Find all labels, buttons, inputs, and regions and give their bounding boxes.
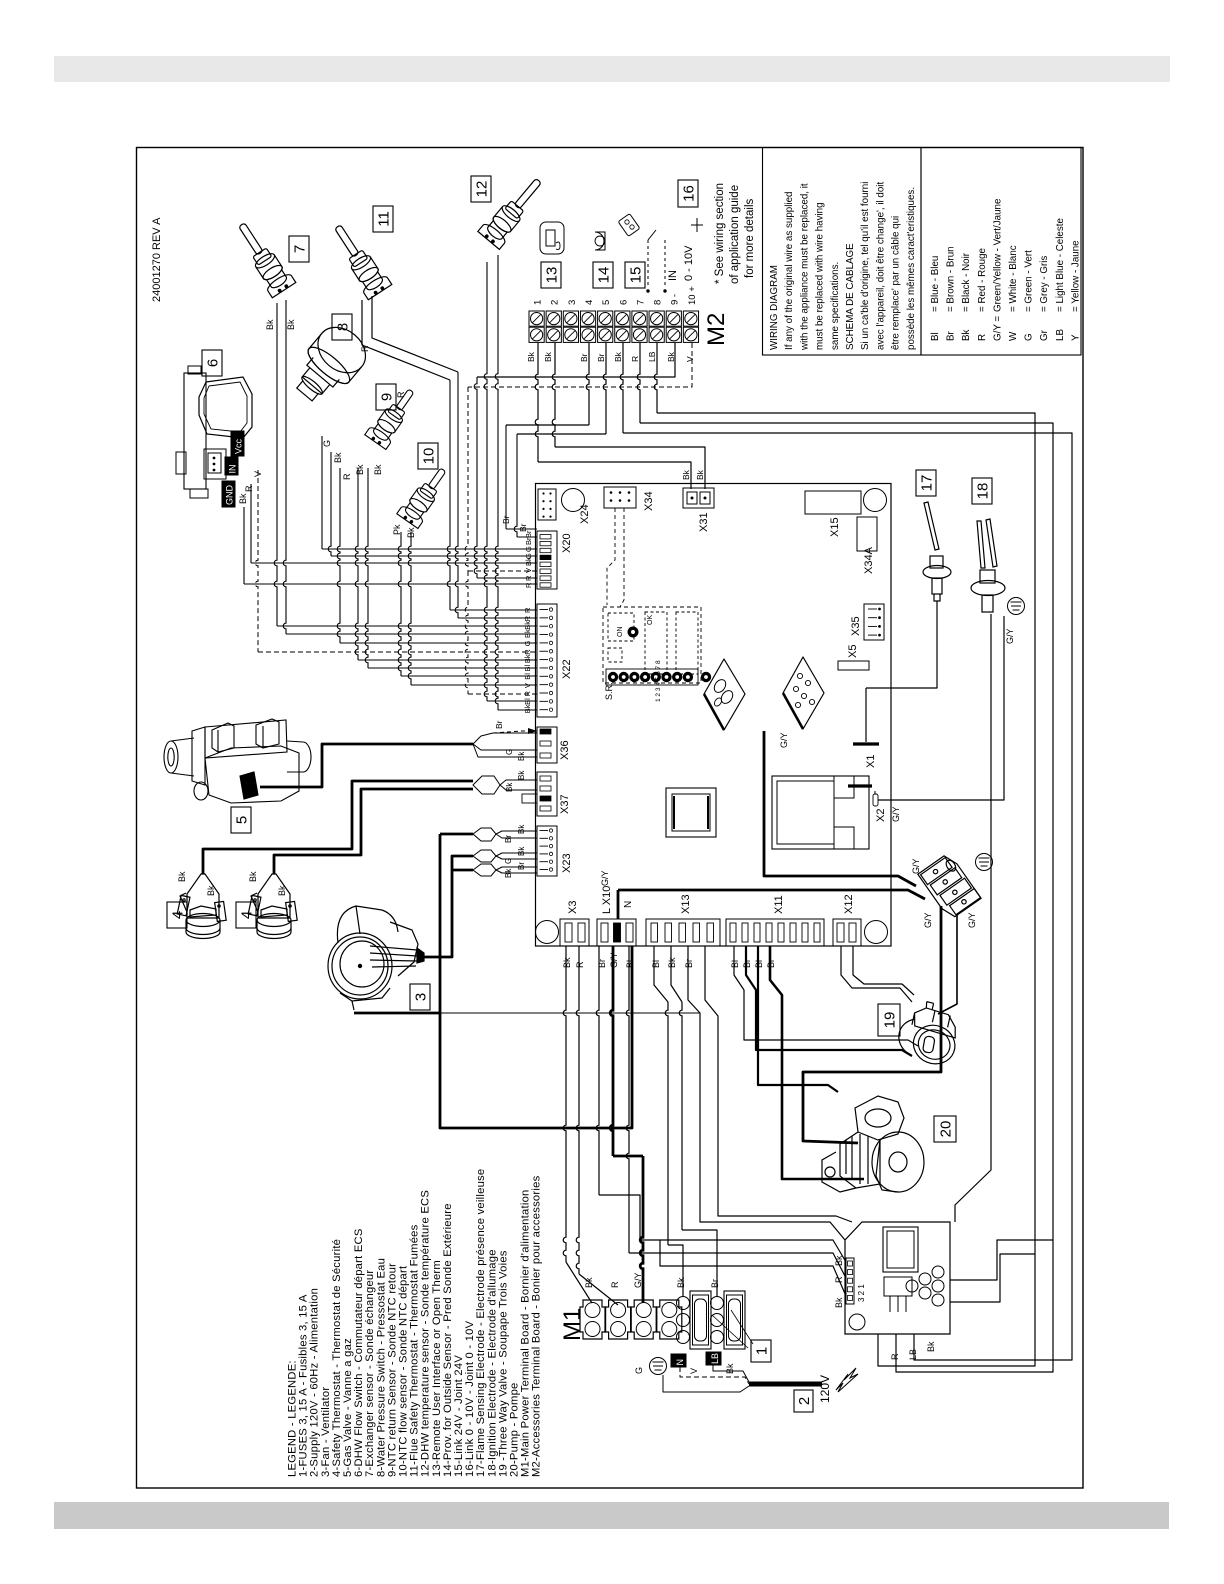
connector X22 [537,604,557,717]
wire gas valve 6 GND Bk [243,507,245,584]
sensor 10 NTC flow sensor [397,462,454,528]
svg-text:7: 7 [291,245,308,253]
wire pressure switch 8 R [337,468,340,643]
svg-text:Bk: Bk [355,464,365,475]
svg-text:Bk: Bk [695,469,705,480]
svg-text:Y: Y [1070,334,1081,341]
svg-text:Bk: Bk [523,704,532,713]
buzzer piezo element [704,659,745,730]
svg-text:G: G [524,546,533,552]
svg-text:LB: LB [710,1353,720,1364]
svg-text:G: G [634,1367,644,1374]
svg-text:X5: X5 [847,645,859,658]
svg-text:R: R [523,649,532,655]
svg-text:G/Y: G/Y [923,912,933,928]
svg-text:Bl: Bl [523,673,532,680]
svg-text:18: 18 [974,483,991,500]
transformer X2 [772,776,869,849]
svg-text:R: R [523,691,532,697]
svg-text:Bk: Bk [517,824,526,834]
connector X34 [604,487,636,508]
PCB mounting hole top-right [864,489,887,512]
fan 3 [328,906,424,1010]
svg-text:X31: X31 [698,512,710,532]
svg-text:= Brown - Brun: = Brown - Brun [946,246,957,312]
svg-text:with the appliance must be rep: with the appliance must be replaced, it [799,183,810,351]
wire M2-7 to right side [637,343,640,423]
svg-text:must be replaced with wire hav: must be replaced with wire having [815,202,826,350]
wire gas valve 6 IN R [250,484,252,563]
svg-text:4: 4 [169,911,186,919]
wire M2-8 to right side [654,343,657,413]
svg-text:Br: Br [946,330,957,341]
bottom connector X3 [560,919,589,946]
svg-text:Br: Br [524,530,533,538]
connector X20 [537,531,557,589]
fan 3 branch to X23 lower fork [452,869,473,872]
G/Y thick wire X10 to M1 [610,946,613,1156]
svg-text:M1: M1 [559,1308,586,1341]
wire M2-5 vertical [514,434,517,537]
svg-text:V: V [524,568,533,573]
svg-text:X23: X23 [561,853,573,873]
svg-text:9: 9 [378,393,395,401]
svg-text:2: 2 [796,1397,813,1405]
svg-text:GND: GND [225,485,235,506]
svg-text:IN: IN [667,270,679,281]
svg-text:5: 5 [233,816,250,824]
PCB mounting hole bottom-right [865,921,888,944]
svg-text:5: 5 [601,300,612,305]
svg-text:Bk: Bk [523,629,532,638]
svg-text:G/Y: G/Y [633,1272,643,1288]
svg-text:14: 14 [595,267,612,284]
svg-text:1 2 3 4 5 6 7 8: 1 2 3 4 5 6 7 8 [655,660,662,702]
connector X35 [864,604,884,640]
sensor 7 exchanger sensor [230,217,296,298]
svg-text:R: R [575,961,585,968]
igniter connector pins [846,1258,854,1304]
dashed wire 0-10V + [465,387,468,571]
svg-text:20: 20 [937,1121,954,1138]
svg-text:R: R [342,473,352,480]
svg-text:= Grey - Gris: = Grey - Gris [1039,256,1050,312]
svg-text:M2: M2 [703,313,730,346]
svg-text:G: G [322,440,332,447]
wire pressure switch 8 G [321,436,323,549]
fan 3 wire to X23 upper fork [354,1012,440,1015]
svg-text:LB: LB [647,351,657,362]
svg-text:19: 19 [881,1012,898,1029]
gas valve 6 [202,350,222,376]
gas valve pin labels Vcc IN GND [231,431,244,456]
sensor 12 DHW temperature sensor [478,172,550,250]
svg-text:7: 7 [635,300,646,305]
svg-text:G/Y: G/Y [600,870,610,886]
wire sensor 10 b [408,532,411,685]
svg-text:G: G [523,640,532,646]
svg-text:3: 3 [412,993,429,1001]
X11 wires to transducer 19 [734,946,918,1046]
svg-text:X11: X11 [773,895,785,914]
wire sensor 7 Bk a [274,303,277,626]
svg-text:Gr: Gr [1039,329,1050,341]
svg-text:Bk: Bk [277,885,287,896]
wire M2-1 to X31 pin1 [535,343,538,462]
svg-text:6: 6 [618,300,629,305]
fan 3 thick wire to X10 N [440,946,632,1128]
igniter to right verticals [878,1254,1035,1366]
svg-text:15: 15 [627,267,644,284]
svg-text:R: R [890,1353,900,1360]
svg-text:R: R [610,1281,620,1288]
svg-text:= Green - Vert: = Green - Vert [1024,250,1035,312]
item box 16 [678,180,698,207]
bottom connector X12 [833,919,861,946]
connector X15 [805,491,861,514]
main control PCB outline [536,484,892,947]
link 24V dashed wires [647,240,649,288]
wire sensor 9 b [365,468,368,668]
wiring diagram notes box [763,148,922,356]
svg-text:= Blue - Bleu: = Blue - Bleu [930,256,941,312]
svg-text:Bk: Bk [961,329,972,341]
flame electrode 17 [916,470,936,496]
svg-text:X24: X24 [579,504,591,524]
svg-text:Green/Yellow - Vert/Jaune: Green/Yellow - Vert/Jaune [992,198,1003,312]
connector X36 [537,727,557,763]
connector X37 [537,772,557,816]
svg-text:1: 1 [753,1347,770,1355]
svg-text:Bk: Bk [524,557,533,566]
page header bar [54,56,1170,82]
svg-text:X15: X15 [829,517,841,537]
sensor 9 NTC return sensor [365,383,422,449]
svg-text:17: 17 [918,475,935,492]
svg-text:Bk: Bk [926,1341,936,1352]
svg-text:10: 10 [420,448,437,465]
svg-text:LB: LB [1055,329,1066,341]
svg-text:Bl: Bl [730,960,740,968]
svg-text:= Light Blue - Celeste: = Light Blue - Celeste [1055,218,1066,312]
svg-text:= Yellow - Jaune: = Yellow - Jaune [1070,240,1081,312]
supply 120V cable [749,1382,822,1387]
svg-text:13: 13 [543,267,560,284]
svg-text:4: 4 [584,300,595,305]
svg-text:11: 11 [375,211,392,227]
svg-text:Bl: Bl [625,960,635,968]
svg-text:Bk: Bk [676,1277,686,1288]
safety thermostat 4 left [177,874,226,939]
svg-text:Bk: Bk [265,319,275,330]
ground symbol near electrode 18 [1008,598,1025,615]
capacitor X1 [853,742,879,745]
svg-text:possède les mêmes caract'erist: possède les mêmes caract'eristiques. [906,187,917,350]
svg-text:WIRING DIAGRAM: WIRING DIAGRAM [769,265,780,350]
svg-text:R: R [524,582,533,588]
svg-text:X35: X35 [850,616,862,636]
PCB mounting hole bottom-left [536,921,559,944]
svg-text:R: R [524,575,533,581]
wire M2-5 to X20 pin2 [603,343,606,434]
safety thermostat 4 right [248,874,297,939]
svg-text:SCHEMA DE CABLAGE: SCHEMA DE CABLAGE [845,243,856,350]
svg-text:Bk: Bk [526,351,536,362]
svg-text:4: 4 [238,911,255,919]
item box 13 with room thermostat icon [541,262,561,288]
connector X31 [683,488,714,508]
svg-text:Br: Br [579,353,589,362]
svg-text:R: R [244,485,254,492]
svg-text:R: R [977,334,988,341]
svg-text:8: 8 [334,323,351,331]
wire M2-4 to X20 pin1 [586,343,589,425]
svg-text:Br: Br [596,353,606,362]
svg-text:16: 16 [680,185,697,202]
svg-text:G: G [504,858,513,864]
water pressure switch 8 [285,318,375,411]
svg-text:V: V [685,356,695,362]
three way valve actuator 19 [878,1004,900,1036]
sensor 11 diagonal leads [362,300,450,380]
X13 wires down to fuses [654,946,668,1002]
bottom connector X10 [597,919,636,946]
svg-text:LB: LB [908,1349,918,1360]
svg-text:If any of the original wire as: If any of the original wire as supplied [784,192,795,350]
bottom connector X13 [646,919,720,946]
G/Y earth bus [618,890,925,899]
ground bracket [918,852,981,920]
svg-text:Bl: Bl [523,698,532,705]
svg-text:G/Y: G/Y [967,912,977,928]
svg-text:X34: X34 [643,491,655,511]
svg-text:G/Y: G/Y [1005,628,1015,644]
svg-text:= White - Blanc: = White - Blanc [1008,245,1019,312]
svg-text:M2-Accessories Terminal Board: M2-Accessories Terminal Board - Bonier p… [531,1175,543,1477]
svg-text:of application guide: of application guide [729,185,741,284]
third igniter feed wire [660,1240,846,1296]
svg-text:X20: X20 [561,533,573,553]
svg-text:6: 6 [204,359,221,367]
svg-text:Br: Br [710,1279,720,1288]
thermostat 4 thick wires to X37 [203,781,473,874]
svg-text:Bk: Bk [562,957,572,968]
page footer bar [54,1502,1169,1529]
Bl wire X10-N to igniter [626,946,629,1253]
connector X34A [857,517,877,551]
svg-text:same specifications.: same specifications. [830,262,841,350]
svg-text:Bk: Bk [505,782,514,792]
svg-text:R: R [523,615,532,621]
svg-text:3: 3 [567,300,578,305]
svg-text:Bk: Bk [504,868,513,878]
dashed 0-10V wire M2-10 horizontal [468,343,692,387]
X11 wires to pump 20 [758,946,838,1092]
svg-text:3 2 1: 3 2 1 [857,1284,866,1302]
svg-text:N: N [623,901,634,908]
wire pressure switch 8 Bk [328,452,331,556]
X12 wires [841,946,912,1002]
svg-text:X22: X22 [561,659,573,679]
wire M2-4 vertical [505,425,507,529]
spark igniter board [845,1222,950,1334]
connector X24 [538,489,556,520]
svg-text:Bk: Bk [543,351,553,362]
svg-text:L X10: L X10 [601,886,613,914]
svg-text:Bk: Bk [725,1363,735,1374]
svg-text:120V: 120V [818,1375,832,1403]
svg-text:Si un ca'ble d'origine, tel qu: Si un ca'ble d'origine, tel qu'il est fo… [860,182,871,350]
connector X5 [838,661,869,670]
svg-text:12: 12 [473,181,490,198]
svg-text:G: G [1024,333,1035,341]
M1 fuse holders [690,1291,711,1349]
svg-text:X34A: X34A [863,546,875,574]
svg-text:R: R [523,607,532,613]
wire sensor 12 b [495,255,498,710]
svg-text:Bk: Bk [667,957,677,968]
svg-text:V: V [689,1368,699,1374]
item box 15 with link icon [625,262,645,288]
fan 3 thin wire right [354,1012,700,1014]
svg-text:= Red - Rouge: = Red - Rouge [977,247,988,312]
wire M2-2 to X31 pin2 [552,343,555,447]
item box 14 with outside sensor icon [593,262,613,288]
svg-text:être remplace' par un câble qu: être remplace' par un câble qui [891,216,902,350]
svg-text:Bk: Bk [177,871,187,882]
svg-text:9 -: 9 - [670,294,681,305]
ignition electrode 18 [972,478,992,504]
terminal board M2 [529,311,544,326]
svg-text:Bk: Bk [286,319,296,330]
svg-text:Br: Br [504,835,513,843]
wire sensor 12 a [484,262,487,701]
svg-text:Br: Br [517,862,526,870]
svg-text:1: 1 [533,300,544,305]
X37 fork [473,776,500,794]
X13 wires to igniter top [688,946,845,1240]
svg-text:Vcc: Vcc [234,438,244,454]
svg-text:Bk: Bk [333,452,343,463]
drawing frame [137,148,1084,1489]
wire sensor 9 a [355,468,358,660]
svg-text:= Black - Noir: = Black - Noir [961,252,972,312]
svg-text:X13: X13 [680,894,692,914]
svg-text:10 +: 10 + [687,286,698,305]
svg-text:S.R.: S.R. [604,682,614,700]
svg-text:Bl: Bl [523,664,532,671]
earth bracket to transducer wire [938,914,957,1014]
svg-text:8: 8 [653,300,664,305]
svg-text:Bk: Bk [681,469,691,480]
X3 X10 wires down to M1 [563,946,566,1262]
svg-text:Bk: Bk [523,621,532,630]
svg-text:Bk: Bk [373,464,383,475]
svg-text:X3: X3 [567,901,579,914]
svg-text:Bk: Bk [517,770,526,780]
svg-text:for more details: for more details [744,198,756,278]
svg-text:G/Y =: G/Y = [992,316,1003,341]
svg-text:W: W [1008,331,1019,341]
svg-text:X2: X2 [875,809,887,822]
svg-text:Bl: Bl [651,960,661,968]
wire sensor 11 b [455,372,458,618]
earth bracket to pump thick wire [803,906,941,1143]
svg-text:* See wiring section: * See wiring section [714,183,726,284]
svg-text:Bk: Bk [238,493,248,504]
sensor 11 flue safety thermostat [326,219,392,300]
wire colour code box [921,148,1081,356]
svg-text:Bl: Bl [930,332,941,341]
ground symbol near bracket [976,854,993,871]
svg-text:V: V [523,683,532,688]
svg-text:OK: OK [647,615,654,625]
svg-text:Bk: Bk [517,846,526,856]
valve 5 gas valve head [164,719,311,803]
wire sensor 7 Bk b [283,300,286,634]
svg-text:N: N [675,1359,685,1366]
svg-text:X36: X36 [559,740,571,760]
svg-text:X1: X1 [865,755,877,768]
electrode 17 wire to X1 [866,601,937,688]
valve 5 thick wire to X36 with fork [260,744,473,787]
svg-text:Br: Br [494,720,504,729]
bottom connector X11 [726,919,824,946]
svg-text:X37: X37 [559,794,571,814]
svg-text:ON: ON [617,627,624,638]
wire M2-9 horizontal [477,343,675,377]
jumper pin row [606,669,698,685]
wire sensor 11 a [447,380,450,610]
svg-text:Bk: Bk [517,751,526,761]
svg-text:G/Y: G/Y [911,858,921,874]
svg-text:avec l'appareil, doit être cha: avec l'appareil, doit être change', il d… [875,182,886,350]
dashed link X34 to jumper area [607,508,615,605]
svg-text:G/Y: G/Y [779,732,789,748]
connector X23 [537,826,557,876]
electrode 18 wire to igniter [955,614,991,1222]
svg-text:2: 2 [550,300,561,305]
dashed 0-10V branch to X22 V pin [465,571,468,694]
wire 0-10V - [474,377,477,578]
wire M2-6 to right side [620,343,623,433]
svg-text:X12: X12 [843,894,855,914]
svg-text:G: G [505,749,514,755]
svg-text:G/Y: G/Y [891,806,901,822]
pump 20 [934,1116,956,1142]
CPU block [666,788,716,837]
svg-text:0 - 10V: 0 - 10V [683,245,695,281]
wire sensor 10 a [398,532,401,676]
svg-text:Bk: Bk [206,885,216,896]
LED board element [783,657,824,729]
svg-text:Br: Br [524,537,533,545]
svg-text:Bk: Bk [834,1297,844,1308]
X2 earth screw wire to electrode 18 ground [878,616,1004,800]
svg-text:Bk: Bk [248,871,258,882]
svg-text:IN: IN [228,465,238,474]
svg-text:Br: Br [684,959,694,968]
lightning bolt [836,1368,858,1392]
jumper area S.R. dashed [603,607,701,683]
dashed wire gas valve 6 V [255,470,258,652]
svg-text:Bk: Bk [523,654,532,663]
svg-text:Bk: Bk [613,351,623,362]
svg-text:24001270 REV A: 24001270 REV A [151,217,163,302]
fan 3 wire to X23 middle fork [424,856,473,957]
svg-text:R: R [630,356,640,362]
PCB mounting hole top-left [562,489,585,512]
